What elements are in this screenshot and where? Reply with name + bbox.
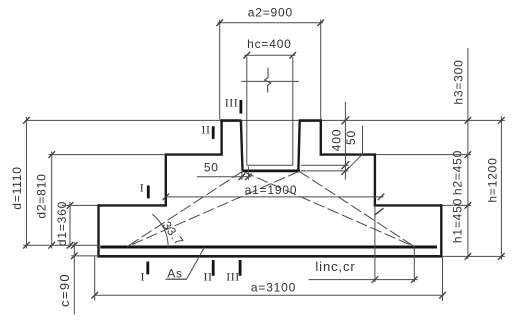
extension line column bottom to dims: [301, 164, 349, 166]
extension line step top left: [49, 154, 166, 156]
column right edge: [292, 57, 294, 165]
dim d tick top: [23, 117, 30, 124]
dim h=1200 line: [500, 117, 502, 260]
column left edge: [246, 57, 248, 165]
extension line step top right: [376, 154, 471, 156]
extension line socket floor to dims: [301, 170, 349, 172]
svg-text:II: II: [202, 123, 211, 137]
dashed punching line right steep: [299, 171, 414, 246]
dim c tick bottom: [71, 253, 78, 260]
svg-text:50: 50: [204, 160, 219, 174]
extension line As level left: [23, 244, 99, 246]
dashed punching line cross to right: [243, 171, 415, 246]
svg-text:c=90: c=90: [57, 273, 72, 307]
dim a tick left: [91, 292, 98, 299]
dim a left extension: [94, 257, 96, 301]
svg-text:50: 50: [344, 130, 358, 145]
dim linc,cr tick right: [411, 276, 418, 283]
svg-text:h=1200: h=1200: [485, 157, 499, 202]
foundation outline: right socket wall outer edge: [320, 119, 322, 154]
foundation outline: right step edge: [374, 153, 376, 205]
dim linc,cr right extension: [413, 247, 415, 282]
chain tick at column bottom: [341, 161, 349, 169]
svg-text:d1=360: d1=360: [55, 201, 69, 246]
dashed punching line cross to left: [127, 171, 299, 246]
extension line slab top right: [442, 204, 471, 206]
dim linc,cr left extension: [374, 205, 376, 282]
extension line slab bottom left: [71, 255, 99, 257]
chain tick step top: [465, 151, 472, 158]
foundation outline: left step edge: [165, 153, 167, 205]
dim c tick top: [71, 242, 78, 249]
section mark I top bar: [147, 186, 150, 199]
ground line: [26, 119, 504, 121]
dim a=3100 line: [95, 294, 444, 296]
foundation outline: right slab top: [374, 204, 442, 206]
tick on linc extension at slab top: [375, 208, 384, 215]
svg-text:linc,cr: linc,cr: [315, 259, 355, 274]
dim d=1110 line: [25, 117, 27, 249]
svg-text:hc=400: hc=400: [247, 37, 292, 51]
column break zigzag: [265, 68, 271, 93]
svg-text:a2=900: a2=900: [248, 6, 293, 20]
As underline: [166, 278, 187, 280]
chain tick at ground: [341, 116, 349, 124]
dim a2 tick right: [317, 20, 324, 27]
socket floor: [241, 169, 300, 172]
foundation outline: left socket wall outer edge: [220, 119, 222, 154]
dim 50 left extension a: [241, 172, 243, 180]
section mark I bottom bar: [146, 262, 149, 275]
foundation outline: left step top: [166, 153, 223, 155]
dim h tick bottom: [498, 253, 505, 260]
dim 50 left tick 2: [245, 174, 252, 181]
dim 50 left extension b: [247, 167, 249, 180]
dim d2=810 line: [51, 152, 53, 249]
foundation outline: slab bottom: [97, 255, 442, 258]
dim linc,cr tick left: [372, 276, 379, 283]
section mark II bottom bar: [212, 260, 215, 276]
svg-text:d=1110: d=1110: [10, 166, 24, 209]
dim a2 right extension: [320, 20, 322, 120]
angle arc 33.7: [152, 214, 168, 248]
svg-text:I: I: [140, 269, 145, 283]
svg-text:h1=450: h1=450: [451, 198, 465, 243]
svg-text:a1=1900: a1=1900: [245, 183, 298, 197]
svg-text:h3=300: h3=300: [452, 59, 466, 104]
dim hc tick left: [244, 52, 251, 59]
svg-text:II: II: [204, 269, 213, 283]
svg-text:d2=810: d2=810: [35, 173, 49, 218]
dim d2 tick bottom: [48, 242, 55, 249]
section mark III top bar: [239, 100, 242, 114]
extension line slab top left: [62, 204, 99, 206]
dim d1=360 line: [69, 202, 71, 248]
dim 50 pullout diagonal leader: [346, 154, 362, 170]
dim h tick top: [498, 117, 505, 124]
foundation outline: right step top: [320, 153, 376, 155]
svg-text:I: I: [140, 181, 145, 195]
dim d tick bottom: [23, 242, 30, 249]
section mark III bottom bar: [239, 260, 242, 276]
svg-text:III: III: [225, 96, 239, 110]
dim d2 tick top: [48, 151, 55, 158]
svg-text:33.7: 33.7: [160, 219, 187, 249]
right dims chain line: [467, 48, 469, 259]
dim hc=400 line: [244, 54, 295, 56]
dim 50 pullout vertical: [362, 126, 364, 155]
dim a1 tick right: [378, 194, 385, 201]
dim a right extension: [442, 258, 444, 301]
dim 50 left tick 1: [239, 174, 246, 181]
chain tick slab bottom: [465, 253, 472, 260]
foundation outline: left socket wall top: [220, 119, 241, 122]
dim a2=900 line: [218, 22, 323, 24]
socket inner right edge: [298, 121, 299, 170]
reinforcement As line: [100, 246, 437, 249]
dim d1 tick bottom: [67, 242, 74, 249]
svg-text:h2=450: h2=450: [451, 150, 465, 195]
foundation outline: right slab edge: [440, 204, 442, 256]
chain tick ground: [465, 117, 472, 124]
socket inner left edge: [241, 121, 243, 170]
As leader line: [187, 248, 205, 280]
column bottom line: [247, 164, 293, 166]
dim 400/50 chain vertical line right of socket: [344, 102, 346, 180]
foundation outline: left slab top: [99, 204, 168, 206]
dim c=90 line: [73, 242, 75, 315]
svg-text:a=3100: a=3100: [251, 280, 296, 294]
dim a1=1900 line: [166, 196, 384, 198]
dim a tick right: [439, 292, 446, 299]
chain tick at socket floor: [341, 167, 349, 175]
column break line: [241, 80, 299, 82]
dim hc tick right: [290, 52, 297, 59]
dim a2 left extension: [219, 20, 221, 120]
dim linc,cr line: [309, 279, 418, 281]
svg-text:As: As: [167, 267, 183, 281]
dim d1 tick top: [67, 202, 74, 209]
svg-text:III: III: [226, 269, 240, 283]
dashed punching line left steep: [127, 171, 242, 246]
foundation outline: right socket wall top: [299, 119, 322, 122]
foundation outline: left slab edge: [97, 204, 99, 256]
dim 50 left pullout line: [197, 176, 252, 178]
section mark II top bar: [212, 126, 215, 139]
chain tick slab top: [465, 202, 472, 209]
dim a2 tick left: [216, 20, 223, 27]
svg-text:400: 400: [330, 129, 344, 151]
extension line slab bottom right: [442, 255, 505, 257]
dim a1 tick left: [163, 194, 170, 201]
